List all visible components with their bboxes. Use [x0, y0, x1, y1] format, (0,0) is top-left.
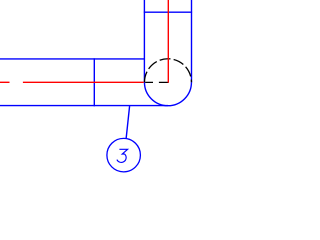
- balloon text 3: [117, 149, 128, 162]
- horizontal pipe joint line: [93, 58, 95, 106]
- elbow circle hidden top half (black dashed arc): [144, 59, 191, 82]
- vertical pipe joint line: [144, 11, 192, 13]
- red horizontal centerline dash 1: [0, 81, 10, 83]
- red vertical centerline: [167, 0, 169, 83]
- vertical pipe right line: [191, 0, 193, 82]
- horizontal pipe top line: [0, 58, 145, 60]
- horizontal pipe bottom line: [0, 105, 168, 107]
- red horizontal centerline dash 2: [23, 81, 144, 83]
- vertical pipe left line: [143, 0, 145, 82]
- elbow hidden centerline dash (black): [145, 81, 168, 83]
- leader line to balloon: [126, 106, 130, 139]
- balloon circle: [107, 138, 140, 172]
- elbow circle solid bottom half (outer corner fillet): [144, 82, 191, 105]
